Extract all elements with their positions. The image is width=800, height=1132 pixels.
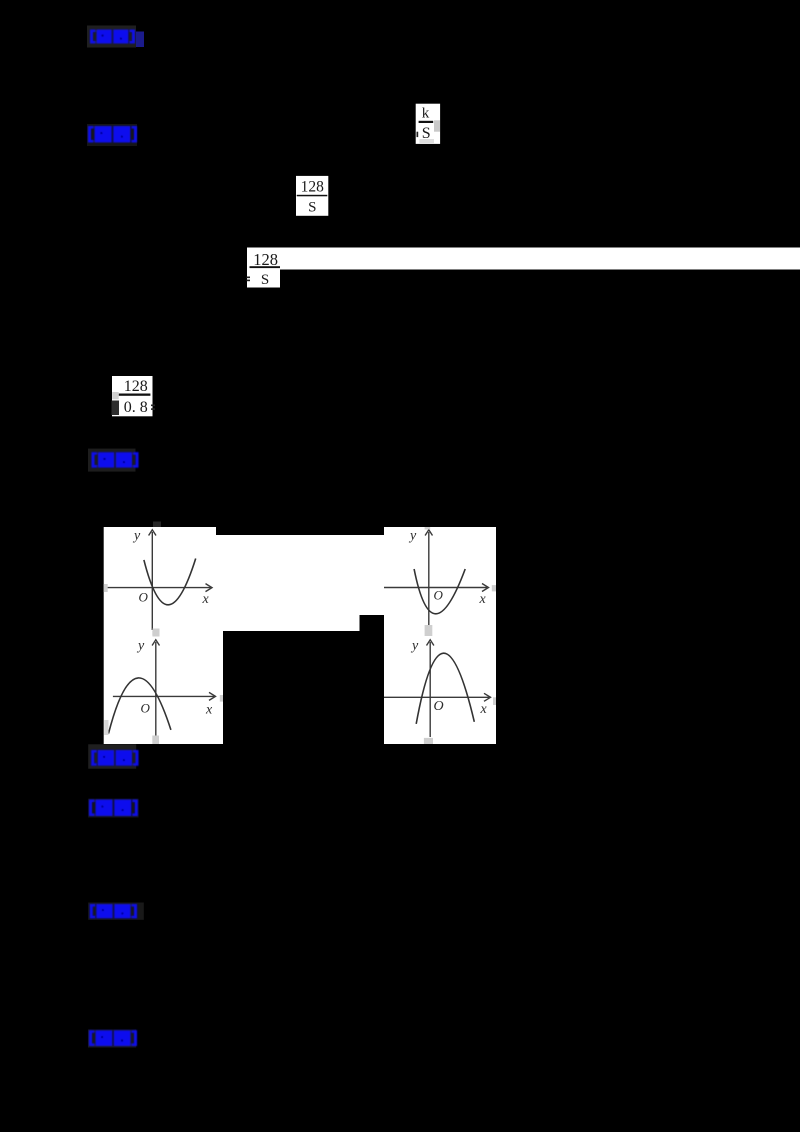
- svg-text:128: 128: [301, 179, 325, 196]
- svg-text:k: k: [422, 106, 430, 122]
- white highlighted line band: [247, 248, 800, 270]
- blue label 2 solution: [88, 126, 137, 143]
- graph B labels: [408, 529, 487, 608]
- graph D parabola: [416, 653, 474, 724]
- label highlight panel 3: [88, 449, 136, 472]
- label highlight panel 5: [88, 799, 138, 818]
- option image D panel (bottom-right graph): [384, 621, 496, 744]
- graph A labels: [132, 529, 210, 608]
- svg-text:128: 128: [124, 378, 148, 395]
- formula image 128/S second: [247, 248, 281, 288]
- label highlight panel 6: [88, 903, 144, 920]
- graph C axes: [113, 640, 216, 744]
- graph A parabola: [144, 559, 196, 605]
- svg-text:y: y: [408, 529, 417, 544]
- graph C parabola: [109, 678, 171, 734]
- option image B panel (top-right graph): [384, 527, 496, 621]
- label highlight panel 1: [87, 26, 136, 48]
- svg-text:y: y: [410, 639, 419, 654]
- blue label 5 analysis: [89, 800, 138, 817]
- graph D selection handles: [424, 738, 433, 744]
- graph B axes: [384, 530, 489, 627]
- formula image 128/S first: [296, 176, 328, 216]
- blue label 3 comment: [92, 452, 139, 467]
- label highlight panel 2: [87, 124, 137, 146]
- white strip between options lower: [216, 615, 360, 631]
- svg-text:y: y: [136, 639, 145, 654]
- formula image k/S: [416, 104, 440, 144]
- formula image 128/0.8: [112, 376, 156, 416]
- blue label 6 solution: [90, 904, 137, 918]
- svg-text:x: x: [202, 592, 210, 607]
- graph C labels: [136, 639, 213, 718]
- svg-text:O: O: [141, 701, 151, 716]
- svg-text:x: x: [480, 702, 488, 717]
- svg-text:S: S: [261, 272, 269, 288]
- blue label 1 analysis: [90, 30, 135, 44]
- blue label 7 comment: [89, 1030, 137, 1046]
- blue label 4 topics: [91, 750, 138, 766]
- graph B parabola: [414, 569, 465, 614]
- svg-text:O: O: [434, 699, 444, 714]
- svg-text:y: y: [132, 529, 141, 544]
- svg-text:0. 8: 0. 8: [124, 399, 148, 416]
- option image C panel (bottom-left graph): [104, 631, 223, 744]
- graph D labels: [410, 639, 488, 718]
- graph A selection handles: [104, 584, 108, 592]
- option image A panel (top-left graph): [104, 527, 216, 631]
- graph C selection handles: [152, 631, 159, 636]
- label highlight panel 4: [88, 744, 136, 768]
- svg-text:O: O: [434, 588, 444, 603]
- svg-text:x: x: [479, 592, 487, 607]
- svg-text:O: O: [139, 590, 149, 605]
- svg-text:S: S: [308, 200, 316, 216]
- graph B selection handles: [492, 585, 496, 591]
- svg-text:x: x: [205, 703, 213, 718]
- graph A axes: [108, 530, 213, 630]
- label highlight panel 7: [88, 1030, 136, 1048]
- selected space block after label 1: [136, 32, 144, 48]
- graph D axes: [384, 640, 491, 737]
- white strip between options top: [216, 535, 384, 615]
